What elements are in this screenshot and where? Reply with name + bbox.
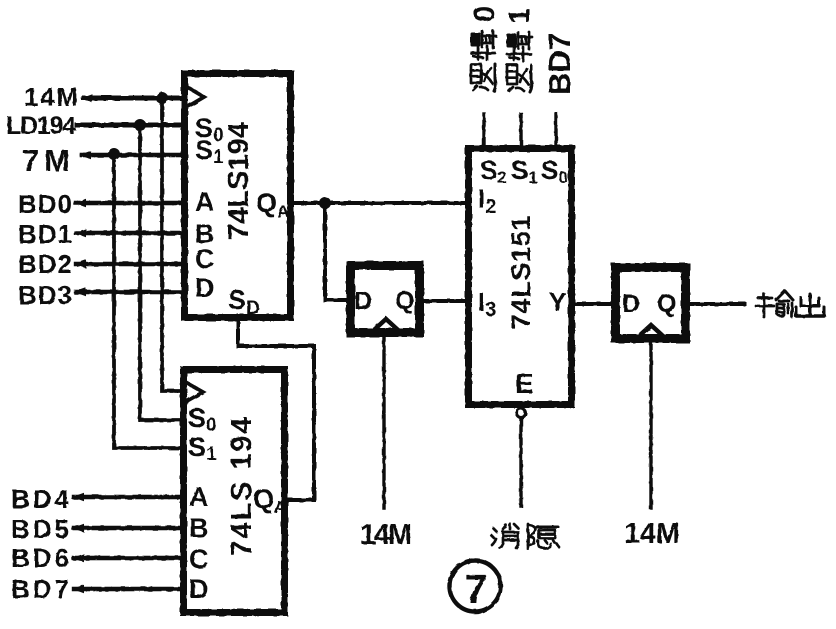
svg-text:BD1: BD1	[18, 219, 72, 249]
svg-text:7M: 7M	[22, 143, 70, 178]
svg-text:BD6: BD6	[11, 543, 69, 573]
svg-text:A: A	[189, 482, 209, 512]
svg-text:Q: Q	[657, 290, 676, 318]
svg-text:BD7: BD7	[11, 574, 69, 604]
svg-text:74LS 194: 74LS 194	[226, 416, 258, 557]
svg-text:BD2: BD2	[18, 249, 72, 279]
svg-text:LD194: LD194	[6, 112, 76, 140]
svg-text:BD7: BD7	[542, 33, 577, 95]
svg-text:BD4: BD4	[11, 484, 70, 514]
svg-text:14M: 14M	[24, 82, 78, 112]
svg-text:Q: Q	[395, 287, 414, 315]
svg-text:D: D	[622, 290, 640, 318]
svg-text:0: 0	[469, 6, 501, 22]
svg-text:D: D	[354, 287, 372, 315]
svg-text:Y: Y	[549, 287, 566, 317]
svg-text:14M: 14M	[624, 518, 680, 550]
svg-text:C: C	[195, 244, 215, 274]
svg-text:C: C	[189, 544, 209, 574]
svg-text:14M: 14M	[360, 519, 412, 551]
svg-text:E: E	[515, 368, 534, 399]
svg-text:D: D	[189, 574, 209, 604]
svg-text:B: B	[189, 513, 209, 543]
svg-text:74LS151: 74LS151	[506, 215, 536, 329]
svg-text:A: A	[195, 187, 215, 217]
svg-text:74LS194: 74LS194	[223, 122, 255, 240]
svg-text:D: D	[195, 273, 215, 303]
svg-text:1: 1	[504, 8, 536, 24]
svg-text:BD0: BD0	[18, 189, 72, 219]
svg-text:BD3: BD3	[18, 280, 72, 310]
svg-text:BD5: BD5	[11, 514, 69, 544]
svg-text:7: 7	[465, 566, 488, 612]
